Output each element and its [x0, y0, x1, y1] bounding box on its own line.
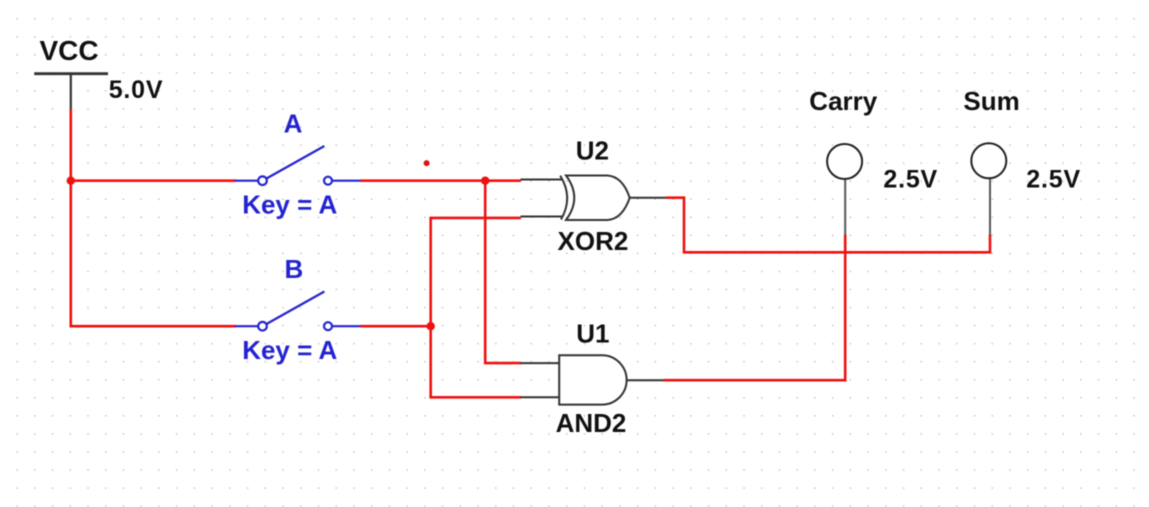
switch J2 (B) — [235, 292, 361, 331]
probe Sum — [971, 143, 1006, 235]
svg-text:AND2: AND2 — [556, 408, 627, 438]
junction switch B line — [427, 322, 435, 330]
wire switch A to XOR input A — [361, 179, 522, 182]
svg-text:XOR2: XOR2 — [558, 226, 629, 256]
svg-text:B: B — [285, 254, 304, 284]
probe Carry — [827, 144, 862, 235]
op XOR2 gate U2 — [521, 176, 667, 221]
svg-text:Key = A: Key = A — [242, 335, 337, 365]
wire switch B to junction — [361, 325, 431, 328]
gate AND2 U1 — [521, 355, 664, 404]
wire to AND input B — [429, 396, 521, 399]
junction switch A line — [481, 177, 489, 185]
wire VCC to switch A — [70, 179, 237, 182]
wire VCC corner to switch B — [70, 325, 237, 328]
svg-text:2.5V: 2.5V — [883, 165, 938, 193]
svg-text:Key = A: Key = A — [242, 190, 337, 220]
power VCC — [34, 74, 108, 110]
svg-text:5.0V: 5.0V — [109, 76, 164, 104]
svg-text:VCC: VCC — [40, 35, 99, 66]
svg-text:A: A — [284, 108, 303, 138]
wire AND output to Carry — [663, 235, 845, 381]
svg-text:2.5V: 2.5V — [1026, 165, 1081, 193]
switch J1 (A) — [235, 146, 361, 185]
svg-text:Carry: Carry — [809, 86, 877, 116]
stray red dot — [424, 160, 430, 166]
wire XOR output to Sum — [666, 198, 990, 253]
wire switch B vertical branch — [429, 218, 432, 397]
svg-text:U1: U1 — [576, 319, 609, 349]
wire VCC vertical — [70, 109, 73, 326]
svg-text:U2: U2 — [576, 136, 609, 166]
junction at VCC/switch A — [67, 177, 75, 185]
wire to XOR input B — [429, 217, 521, 220]
svg-text:Sum: Sum — [963, 86, 1019, 116]
wire node branch down to AND input A — [485, 181, 521, 363]
